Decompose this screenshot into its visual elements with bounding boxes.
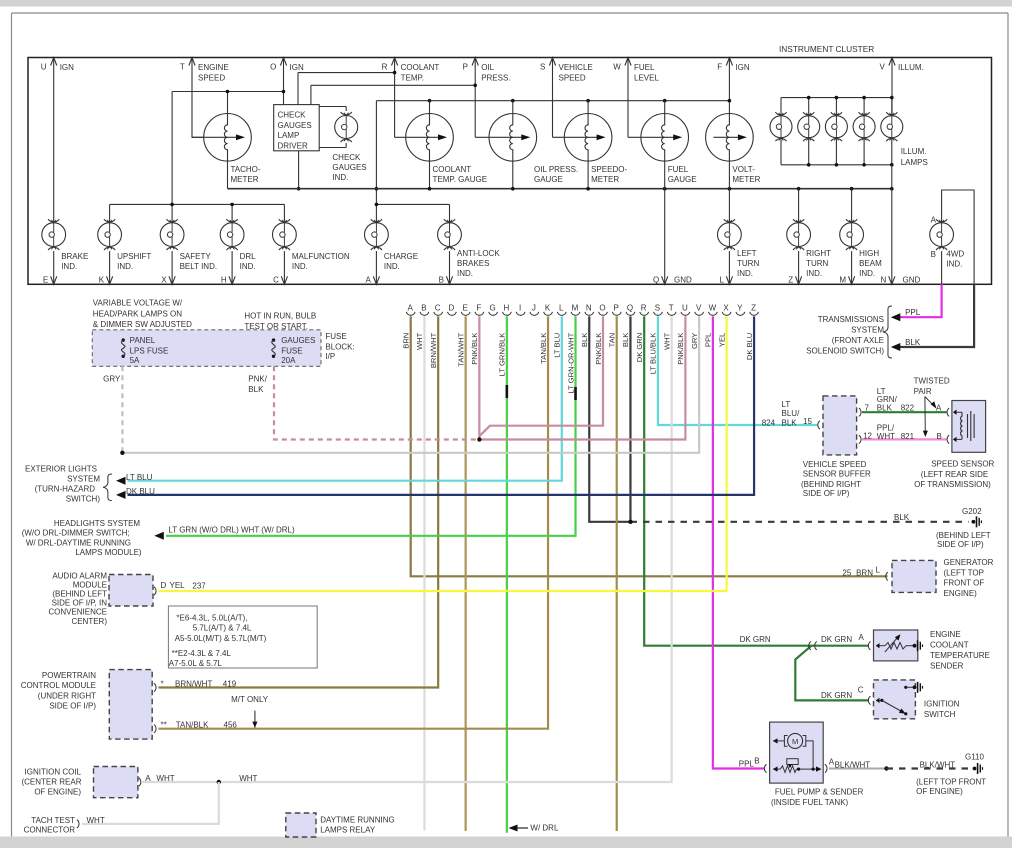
wire pin R down to coolant gauge [394, 58, 396, 138]
wire N BLK to ground G202 [589, 316, 630, 521]
fuse block header text [93, 299, 192, 330]
svg-text:IGN: IGN [60, 63, 74, 72]
illum lamp [825, 112, 847, 141]
svg-text:GAUGE: GAUGE [534, 175, 563, 184]
voltmeter gauge [706, 114, 761, 185]
svg-text:POWERTRAIN: POWERTRAIN [42, 671, 96, 680]
speed sensor connectors [947, 408, 949, 444]
svg-text:(CENTER REAR: (CENTER REAR [21, 777, 81, 786]
svg-text:IND.: IND. [240, 262, 256, 271]
svg-text:VOLT-: VOLT- [732, 165, 755, 174]
svg-text:IGNITION COIL: IGNITION COIL [25, 767, 82, 776]
check gauges ind label [332, 153, 366, 182]
svg-text:G202: G202 [962, 507, 982, 516]
svg-text:X: X [161, 276, 167, 285]
pin M bottom arrow [839, 251, 854, 284]
hot in run text [244, 312, 316, 331]
check gauges indicator lamp [319, 107, 346, 148]
svg-text:& DIMMER SW ADJUSTED: & DIMMER SW ADJUSTED [93, 320, 192, 329]
svg-text:WHT: WHT [239, 774, 257, 783]
svg-text:N: N [881, 276, 887, 285]
wire BLK from 4WD ind to transmissions system [898, 284, 974, 347]
ignition switch connector C [858, 686, 871, 705]
svg-text:TACH TEST: TACH TEST [31, 816, 75, 825]
wire 4WD pin A up and over to right side [942, 190, 975, 284]
wire fuel gauge to pin Q GND [653, 161, 692, 284]
svg-text:HEAD/PARK LAMPS ON: HEAD/PARK LAMPS ON [93, 310, 182, 319]
pin P (OIL PRESS.) top arrow [463, 58, 511, 83]
svg-text:*: * [161, 680, 164, 689]
pin U (IGN) top arrow [41, 58, 74, 73]
svg-text:5A: 5A [130, 356, 140, 365]
svg-text:(BEHIND RIGHT: (BEHIND RIGHT [801, 480, 861, 489]
svg-text:C: C [435, 304, 441, 313]
svg-text:(UNDER RIGHT: (UNDER RIGHT [38, 691, 96, 700]
svg-text:C: C [858, 686, 864, 695]
svg-text:GAUGES: GAUGES [332, 163, 366, 172]
transmissions system label [806, 315, 884, 356]
svg-text:A7-5.0L & 5.7L: A7-5.0L & 5.7L [169, 659, 223, 668]
svg-text:(BEHIND LEFT: (BEHIND LEFT [52, 590, 107, 599]
svg-text:M: M [792, 737, 798, 746]
svg-text:GAUGES: GAUGES [278, 121, 312, 130]
inline connector on dk grn [809, 642, 817, 650]
svg-text:SENSOR BUFFER: SENSOR BUFFER [803, 470, 871, 479]
svg-text:LT BLU/BLK: LT BLU/BLK [649, 333, 658, 375]
svg-text:(LEFT TOP: (LEFT TOP [944, 568, 984, 577]
svg-text:IGN: IGN [735, 63, 749, 72]
M/T ONLY annotation [231, 695, 269, 728]
illum lamp [881, 112, 903, 141]
speed sensor internals [953, 410, 974, 443]
G110 location label [916, 778, 986, 796]
illum lamp [798, 112, 820, 141]
svg-text:LPS FUSE: LPS FUSE [130, 347, 169, 356]
fuse PANEL LPS FUSE 5A [121, 336, 168, 365]
svg-text:B: B [439, 276, 444, 285]
svg-text:ENGINE: ENGINE [198, 63, 229, 72]
svg-text:(INSIDE FUEL TANK): (INSIDE FUEL TANK) [771, 798, 849, 807]
buffer pin 7 wire LT GRN/BLK 822 [859, 404, 947, 417]
svg-text:IND.: IND. [292, 262, 308, 271]
fuse block label [325, 332, 354, 361]
svg-text:PPL: PPL [739, 760, 755, 769]
svg-text:YEL: YEL [170, 581, 186, 590]
arrow LT BLU to exterior lights [116, 473, 153, 485]
svg-text:CONTROL MODULE: CONTROL MODULE [21, 681, 96, 690]
svg-text:SYSTEM: SYSTEM [67, 474, 100, 483]
svg-text:CONNECTOR: CONNECTOR [24, 826, 76, 835]
svg-text:Z: Z [751, 304, 756, 313]
svg-text:TAN/BLK: TAN/BLK [176, 721, 209, 730]
svg-text:CHARGE: CHARGE [384, 252, 418, 261]
svg-text:PANEL: PANEL [130, 336, 156, 345]
indicator lamp HIGH BEAM [840, 219, 864, 250]
svg-text:WHT: WHT [662, 332, 671, 350]
wire S LT BLU/BLK to speed sensor buffer [658, 316, 817, 425]
wire U PNK/BLK to splice [479, 316, 685, 439]
svg-text:GAUGE: GAUGE [668, 175, 697, 184]
svg-text:TEST OR START.: TEST OR START. [244, 322, 308, 331]
speed sensor box [952, 401, 986, 453]
splice node PNK/BLK [477, 437, 481, 441]
wire L LT BLU to turn-hazard switch [128, 316, 562, 480]
svg-text:IGNITION: IGNITION [924, 700, 960, 709]
svg-text:FUSE: FUSE [281, 347, 302, 356]
svg-text:DK BLU: DK BLU [745, 333, 754, 360]
illum lamp [770, 112, 792, 141]
svg-text:PNK/BLK: PNK/BLK [470, 333, 479, 365]
svg-text:B: B [421, 304, 426, 313]
wire V GRY to fuse block splice [122, 316, 699, 452]
fuse GAUGES FUSE 20A [272, 336, 316, 365]
pin T (ENGINE SPEED) top arrow [180, 58, 229, 83]
svg-text:SIDE OF I/P): SIDE OF I/P) [49, 701, 96, 710]
svg-text:4WD: 4WD [946, 249, 964, 258]
connector 15 on buffer input [818, 421, 820, 429]
node WHT splice [217, 780, 221, 784]
svg-text:GRY: GRY [103, 375, 121, 384]
svg-text:METER: METER [591, 175, 619, 184]
wire M LT GRN-OR-WHT to headlights system [166, 316, 576, 535]
wire check-gauges driver to P pin (y=85.3) [311, 84, 477, 105]
svg-text:METER: METER [732, 175, 760, 184]
svg-text:P: P [614, 304, 619, 313]
svg-text:S: S [540, 63, 545, 72]
wire C BRN/WHT to PCM pin * [159, 316, 439, 687]
fuel pump and sender box [770, 722, 824, 783]
svg-text:20A: 20A [281, 356, 296, 365]
svg-text:DK GRN: DK GRN [635, 333, 644, 363]
wire pin T down and into tachometer [192, 58, 204, 138]
audio alarm module label [48, 571, 107, 626]
svg-text:SPEED: SPEED [198, 73, 225, 82]
buffer pin 12 wire PPL/WHT 821 [859, 431, 947, 443]
wire K TAN/BLK to PCM pin ** [159, 316, 549, 728]
svg-text:CHECK: CHECK [332, 153, 361, 162]
svg-text:T: T [180, 63, 185, 72]
svg-text:(LEFT REAR SIDE: (LEFT REAR SIDE [921, 470, 988, 479]
arrow LT GRN headlights [154, 526, 295, 540]
svg-text:A: A [366, 276, 372, 285]
svg-text:237: 237 [192, 582, 206, 591]
svg-text:*E6-4.3L, 5.0L(A/T),: *E6-4.3L, 5.0L(A/T), [176, 614, 247, 623]
svg-text:YEL: YEL [717, 333, 726, 347]
svg-text:WHT: WHT [877, 432, 895, 441]
wire T WHT to ignition coil line [219, 316, 672, 782]
ignition switch internals [876, 686, 915, 716]
svg-text:DK BLU: DK BLU [126, 487, 155, 496]
svg-text:GND: GND [903, 276, 921, 285]
svg-text:OIL PRESS.: OIL PRESS. [534, 165, 578, 174]
svg-text:BLK: BLK [782, 418, 798, 427]
svg-text:SIDE OF I/P): SIDE OF I/P) [937, 540, 984, 549]
wire E TAN/WHT down off-page [465, 316, 467, 831]
left indicator lamp bus y=204.4 [110, 203, 285, 223]
svg-text:TAN: TAN [608, 333, 617, 348]
illumination lamps group [781, 96, 894, 189]
svg-text:GENERATOR: GENERATOR [944, 558, 994, 567]
svg-text:G: G [489, 304, 495, 313]
svg-text:IND.: IND. [117, 262, 133, 271]
svg-text:IGN: IGN [290, 63, 304, 72]
svg-text:821: 821 [901, 432, 915, 441]
wire H LT GRN/BLK down to W/DRL [506, 316, 508, 832]
svg-text:BLK: BLK [580, 333, 589, 347]
svg-text:D: D [161, 581, 167, 590]
fuel pump connector B PPL [739, 757, 767, 773]
ignition coil connector A WHT [139, 774, 175, 786]
svg-text:A: A [931, 216, 937, 225]
wire pin S down to speedometer [552, 58, 554, 138]
sender connector A [859, 633, 871, 650]
svg-text:DK GRN: DK GRN [740, 635, 771, 644]
svg-text:LT: LT [782, 400, 791, 409]
svg-text:HOT IN RUN, BULB: HOT IN RUN, BULB [244, 312, 316, 321]
svg-text:ENGINE): ENGINE) [944, 589, 978, 598]
label PNK/BLK [248, 375, 267, 394]
svg-text:5.7L(A/T) & 7.4L: 5.7L(A/T) & 7.4L [193, 624, 252, 633]
svg-text:IND.: IND. [332, 173, 348, 182]
illum lamps label [901, 147, 928, 167]
svg-text:DRIVER: DRIVER [278, 141, 308, 150]
wire GRY dashed from panel lps fuse [121, 366, 123, 453]
svg-text:(BEHIND LEFT: (BEHIND LEFT [936, 531, 991, 540]
generator connector L [842, 566, 888, 581]
pin N GND arrow from bus [881, 189, 921, 285]
svg-text:**: ** [161, 721, 167, 730]
pin R (COOLANT TEMP.) top arrow [382, 58, 440, 83]
wire pin O down to check-gauges driver [283, 58, 285, 105]
gauge top stubs [430, 101, 665, 114]
svg-text:IND.: IND. [61, 262, 77, 271]
svg-text:TEMP. GAUGE: TEMP. GAUGE [433, 175, 488, 184]
svg-text:W: W [613, 63, 621, 72]
indicator lamp 4WD IND [930, 219, 954, 250]
svg-text:7: 7 [865, 404, 870, 413]
svg-text:FUEL: FUEL [634, 63, 655, 72]
wire WHT down to tach test connector [82, 782, 219, 824]
indicator lamp RIGHT TURN [787, 219, 811, 250]
pin L bottom arrow [719, 251, 732, 284]
pin A bottom arrow [366, 251, 380, 284]
svg-text:BRN: BRN [856, 569, 873, 578]
svg-text:DK GRN: DK GRN [821, 691, 852, 700]
svg-text:12: 12 [863, 431, 872, 440]
svg-text:SPEED: SPEED [559, 73, 586, 82]
svg-text:V: V [879, 63, 885, 72]
svg-text:SYSTEM: SYSTEM [851, 326, 884, 335]
indicator lamp CHARGE [365, 219, 389, 250]
labels PPL/WHT 821 B [877, 424, 942, 442]
svg-text:BLK: BLK [248, 385, 264, 394]
wire 4WD pin B down to cluster edge [941, 251, 943, 284]
svg-text:OF ENGINE): OF ENGINE) [34, 788, 81, 797]
svg-text:U: U [682, 304, 688, 313]
svg-text:G110: G110 [965, 753, 985, 762]
svg-text:PPL: PPL [704, 333, 713, 347]
gauge bottom bus y=188.7 [228, 187, 894, 191]
svg-text:INSTRUMENT CLUSTER: INSTRUMENT CLUSTER [779, 44, 874, 54]
powertrain control module box [109, 670, 152, 740]
svg-text:IND.: IND. [384, 262, 400, 271]
svg-text:BLK: BLK [621, 333, 630, 347]
wire O PNK/BLK to splice [479, 316, 603, 436]
gauge bottom stubs to bus [228, 161, 589, 189]
engine coolant temperature sender box [874, 630, 918, 661]
svg-text:TAN/BLK: TAN/BLK [539, 333, 548, 364]
svg-text:PNK/BLK: PNK/BLK [594, 333, 603, 365]
svg-text:METER: METER [231, 175, 259, 184]
svg-text:U: U [41, 63, 47, 72]
svg-text:IND.: IND. [457, 269, 473, 278]
svg-text:LT GRN/BLK: LT GRN/BLK [498, 333, 507, 377]
pin W (FUEL LEVEL) top arrow [613, 58, 659, 83]
pin C bottom arrow [273, 251, 287, 284]
fuse block I/P box [92, 330, 321, 367]
svg-text:BRN/WHT: BRN/WHT [175, 680, 212, 689]
transmissions brace [883, 306, 892, 358]
wire bus to high beam lamp [851, 189, 853, 223]
svg-text:LAMPS MODULE): LAMPS MODULE) [75, 548, 142, 557]
svg-text:K: K [99, 276, 105, 285]
svg-text:O: O [599, 304, 605, 313]
wire pin F down into voltmeter [728, 58, 730, 114]
svg-text:A: A [936, 404, 942, 413]
svg-text:I: I [519, 304, 521, 313]
fuel pump sender resistor [773, 759, 822, 773]
IGN feed bus y=91.5 (O wire to lamp feed) [172, 90, 285, 205]
svg-text:TRANSMISSIONS: TRANSMISSIONS [818, 315, 884, 324]
gauge top bus y=100.7 [375, 99, 732, 205]
svg-text:ILLUM.: ILLUM. [898, 63, 924, 72]
svg-text:419: 419 [223, 680, 237, 689]
svg-text:T: T [669, 304, 674, 313]
svg-text:TWISTED: TWISTED [914, 377, 950, 386]
svg-text:IND.: IND. [859, 269, 875, 278]
indicator lamp ANTI-LOCK [438, 219, 462, 250]
svg-text:COOLANT: COOLANT [930, 641, 969, 650]
svg-text:F: F [717, 63, 722, 72]
fuel gauge [628, 114, 697, 185]
wire A BRN to generator [411, 316, 888, 576]
wire pin P down to oil press gauge [474, 58, 476, 138]
svg-text:BRAKE: BRAKE [61, 252, 88, 261]
labels DK GRN [740, 635, 853, 700]
svg-text:DRL: DRL [240, 252, 257, 261]
svg-text:C: C [273, 276, 279, 285]
svg-text:PPL: PPL [905, 308, 921, 317]
pin E bottom arrow [43, 251, 57, 284]
svg-text:(FRONT AXLE: (FRONT AXLE [832, 336, 884, 345]
svg-text:RIGHT: RIGHT [806, 249, 831, 258]
splice tick on M wire [574, 387, 577, 400]
wire X YEL to audio alarm module [159, 316, 727, 591]
svg-text:PNK/BLK: PNK/BLK [676, 333, 685, 365]
wire PNK/BLK dashed from gauges fuse [274, 366, 479, 439]
svg-text:A: A [408, 304, 414, 313]
svg-text:BLU/: BLU/ [782, 409, 801, 418]
svg-text:SIDE OF I/P): SIDE OF I/P) [803, 489, 850, 498]
svg-text:FRONT OF: FRONT OF [944, 579, 985, 588]
svg-text:S: S [655, 304, 660, 313]
svg-text:MALFUNCTION: MALFUNCTION [292, 252, 350, 261]
svg-text:TURN: TURN [806, 259, 828, 268]
wire B WHT down off-page [423, 316, 425, 830]
svg-text:HIGH: HIGH [859, 249, 879, 258]
illum lamp [853, 112, 875, 141]
wire pin W down to fuel gauge [627, 58, 629, 138]
svg-text:LT BLU: LT BLU [126, 473, 153, 482]
oil pressure gauge [475, 114, 578, 185]
generator box [892, 560, 936, 592]
svg-text:GRY: GRY [690, 333, 699, 349]
audio alarm module box [109, 575, 153, 607]
svg-text:H: H [221, 276, 227, 285]
svg-text:W: W [709, 304, 717, 313]
svg-text:LT BLU: LT BLU [553, 333, 562, 358]
svg-text:V: V [696, 304, 702, 313]
daytime running lamps relay box [286, 813, 316, 837]
svg-text:D: D [449, 304, 455, 313]
engine note box [168, 606, 317, 668]
svg-text:OF ENGINE): OF ENGINE) [916, 787, 963, 796]
svg-text:MODULE: MODULE [73, 580, 107, 589]
W/DRL arrow annotation [509, 824, 559, 833]
pin H bottom arrow [221, 251, 235, 284]
svg-text:(LEFT TOP FRONT: (LEFT TOP FRONT [916, 778, 986, 787]
ground G202 [962, 507, 982, 527]
svg-text:822: 822 [901, 404, 915, 413]
node Q-N junction [628, 520, 632, 524]
svg-text:M: M [839, 276, 846, 285]
svg-text:J: J [532, 304, 536, 313]
instrument cluster box [28, 58, 992, 285]
exterior lights brace [103, 474, 112, 501]
svg-text:COOLANT: COOLANT [433, 165, 472, 174]
buffer label [801, 460, 871, 498]
svg-text:Q: Q [627, 304, 633, 313]
svg-text:OIL: OIL [481, 63, 494, 72]
svg-text:N: N [586, 304, 592, 313]
svg-text:GND: GND [674, 276, 692, 285]
svg-text:EXTERIOR LIGHTS: EXTERIOR LIGHTS [25, 464, 97, 473]
headlights system label [22, 519, 142, 557]
svg-text:VARIABLE VOLTAGE W/: VARIABLE VOLTAGE W/ [93, 299, 183, 308]
svg-text:A5-5.0L(M/T) & 5.7L(M/T): A5-5.0L(M/T) & 5.7L(M/T) [175, 634, 267, 643]
svg-text:B: B [754, 757, 759, 766]
svg-text:DAYTIME RUNNING: DAYTIME RUNNING [320, 815, 395, 824]
svg-text:DK GRN: DK GRN [821, 635, 852, 644]
svg-text:BEAM: BEAM [859, 259, 882, 268]
svg-text:TAN/WHT: TAN/WHT [456, 332, 465, 366]
ground G110 [965, 753, 985, 775]
wire R DK GRN to coolant sender and ignition switch [644, 316, 869, 645]
wire W PPL to fuel pump [713, 316, 765, 768]
svg-text:VEHICLE: VEHICLE [559, 63, 593, 72]
svg-text:LEVEL: LEVEL [634, 73, 659, 82]
ignition switch ground [913, 685, 917, 689]
svg-text:I/P: I/P [325, 352, 335, 361]
pcm pin ** TAN/BLK 456 [154, 721, 237, 733]
svg-text:CONVENIENCE: CONVENIENCE [48, 608, 107, 617]
splice node GRY [120, 451, 124, 455]
svg-text:LT GRN-OR-WHT: LT GRN-OR-WHT [566, 332, 575, 393]
svg-text:SWITCH: SWITCH [924, 710, 956, 719]
svg-text:Z: Z [788, 276, 793, 285]
svg-text:O: O [270, 63, 276, 72]
fuel pump label [771, 788, 864, 808]
